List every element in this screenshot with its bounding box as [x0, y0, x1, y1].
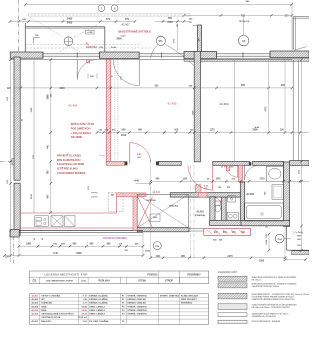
svg-text:V ROZVODNEJ SKRINKE: V ROZVODNEJ SKRINKE: [57, 172, 86, 175]
partition wall 42.405/42.404 vertical: [194, 51, 200, 161]
svg-text:D.02: D.02: [137, 154, 142, 156]
svg-text:2400: 2400: [252, 129, 258, 132]
bottom mid dim chain: [151, 257, 285, 259]
left outer vertical dim line: [10, 60, 12, 262]
window right (42.404): [217, 53, 271, 55]
svg-text:2400: 2400: [67, 17, 73, 20]
svg-text:1175: 1175: [174, 38, 176, 44]
wardrobe inner unit: [150, 214, 160, 222]
right bottom small dim: [285, 259, 306, 261]
small red stub below band (zasuvka): [87, 60, 90, 63]
header row texts: [39, 277, 41, 283]
exterior wall left: [14, 57, 20, 180]
svg-text:42.405: 42.405: [31, 309, 38, 312]
top overall dimension line: [26, 4, 292, 6]
wc/bath divider wall grey: [240, 182, 244, 224]
exterior wall segment top-mid-right: [184, 51, 217, 58]
neighbour wall edge lines right: [292, 60, 294, 161]
svg-text:42.401: 42.401: [152, 190, 160, 194]
svg-text:1B: 1B: [242, 39, 246, 43]
svg-text:STIERK. OMIETKA: STIERK. OMIETKA: [127, 305, 147, 308]
svg-text:42.407: 42.407: [122, 22, 130, 26]
bathtub: [244, 203, 283, 221]
wc washer: [227, 212, 238, 220]
svg-text:775: 775: [106, 18, 111, 21]
window top-left (balcony door + window): [43, 53, 100, 55]
left dim line y87.9: [14, 87, 200, 89]
mid horizontal wall seg B: [213, 161, 250, 165]
svg-text:DREV. LAMELY: DREV. LAMELY: [89, 313, 105, 316]
exterior wall segment top-left: [10, 52, 43, 58]
interior vertical guide x34: [33, 60, 35, 213]
legend table header box: [30, 271, 209, 284]
svg-text:2+40: 2+40: [111, 46, 117, 49]
kitchen fridge: [65, 216, 76, 227]
leader from P04 right: [284, 238, 291, 240]
living dim chain y132.5: [97, 132, 309, 134]
svg-text:STL: STL: [159, 40, 164, 43]
svg-text:ZALIATE BETÓNOM HR. 300mm: ZALIATE BETÓNOM HR. 300mm: [252, 285, 280, 288]
wc left wall: [221, 196, 226, 225]
svg-text:42.405: 42.405: [167, 102, 177, 106]
door D02 jambs: [125, 161, 128, 165]
svg-text:KERAM. DLAŽBA: KERAM. DLAŽBA: [89, 298, 108, 301]
door D01 corridor/42.404 red: [212, 165, 214, 190]
grid bubble 8: [111, 5, 118, 12]
kitchen red band horizontal: [117, 193, 146, 197]
bathroom bottom wall: [241, 220, 290, 225]
red hatch overlay on wc north wall: [198, 193, 207, 197]
section axis dash-dot top-left: [18, 0, 20, 52]
dashed soffit line 1: [26, 44, 140, 46]
wc/bath divider wall red top: [239, 165, 243, 182]
svg-text:STIERK. OMIETKA: STIERK. OMIETKA: [127, 295, 147, 298]
red cross brace over niche: [138, 197, 153, 228]
circle P04 bottom-left-mid: [153, 242, 161, 250]
svg-text:7: 7: [101, 7, 103, 11]
wc door red: [237, 165, 239, 177]
svg-text:42.404: 42.404: [219, 102, 229, 106]
red wall bottom band: [106, 161, 124, 165]
svg-text:42.406: 42.406: [31, 313, 38, 316]
dashed leaders from band to light: [30, 17, 63, 37]
dashed leaders to light: [60, 46, 69, 52]
dashed future furniture box: [108, 193, 123, 212]
opening between wardrobe wall and wc band: [189, 227, 204, 229]
svg-text:RIEŠ. PROJEKT: RIEŠ. PROJEKT: [181, 298, 198, 301]
svg-text:2175: 2175: [227, 255, 233, 258]
bottom dim chain living: [19, 245, 143, 247]
svg-text:STIERK. OMIETKA: STIERK. OMIETKA: [160, 295, 180, 298]
svg-text:14.86: 14.86: [81, 309, 87, 312]
svg-text:PRÁČKA: PRÁČKA: [169, 204, 178, 207]
svg-text:IZBA: IZBA: [41, 309, 47, 312]
dash-dot section line mid-left: [0, 160, 14, 162]
svg-text:2400: 2400: [67, 22, 73, 25]
red partition start vertical: [133, 197, 137, 231]
svg-text:2020: 2020: [145, 251, 151, 253]
mid horizontal wall seg A: [159, 161, 182, 165]
svg-text:LEGENDA MAT.:: LEGENDA MAT.:: [218, 270, 238, 274]
svg-text:LEGENDA MIESTNOSTÍ: 4.NP: LEGENDA MIESTNOSTÍ: 4.NP: [45, 273, 88, 277]
svg-text:DREV. LAMELY: DREV. LAMELY: [89, 309, 105, 312]
svg-text:WC: WC: [41, 299, 45, 301]
dashed soffit line 2: [26, 47, 152, 49]
wc sink: [228, 196, 236, 202]
svg-text:STIERK. OMIETKA: STIERK. OMIETKA: [127, 309, 147, 312]
mid horizontal wall seg C: [253, 161, 284, 165]
grid bubble 7: [98, 5, 105, 12]
svg-text:42.403: 42.403: [246, 193, 254, 196]
svg-text:+3,85: +3,85: [87, 32, 93, 34]
svg-text:42.401: 42.401: [31, 295, 38, 298]
circle P04 right: [275, 234, 284, 243]
svg-text:IZBA: IZBA: [41, 305, 47, 308]
wc door arc red: [214, 197, 222, 205]
window jamb ticks: [42, 52, 44, 57]
svg-text:PRIVIESŤ EL.KÁBEL: PRIVIESŤ EL.KÁBEL: [57, 155, 82, 158]
svg-text:ISTIŤ PRE KLIMU: ISTIŤ PRE KLIMU: [57, 168, 78, 171]
inner face line of top wall: [10, 59, 292, 61]
legend swatch 4: [218, 304, 247, 310]
bottom red band with window dims: [204, 229, 251, 236]
svg-text:+ 100+výš 800mm: + 100+výš 800mm: [71, 132, 91, 135]
right vertical extension lines: [268, 60, 270, 133]
svg-text:1970(4.10): 1970(4.10): [239, 20, 250, 23]
svg-text:PRE KLIMATIZÁCIU: PRE KLIMATIZÁCIU: [57, 159, 81, 162]
dotted balcony-above band: [29, 14, 191, 16]
svg-text:OD ZEME: OD ZEME: [71, 136, 83, 139]
added insulation band top-right: [184, 59, 309, 62]
door D02 living/corridor red: [129, 143, 131, 164]
svg-text:955: 955: [241, 84, 246, 87]
svg-text:KERAM. DLAŽBA: KERAM. DLAŽBA: [89, 295, 108, 298]
faint outer sill line: [19, 234, 143, 236]
corridor dim chain y181.3: [151, 180, 309, 182]
svg-text:PODLAHA: PODLAHA: [99, 280, 111, 283]
extension lines bottom: [150, 165, 152, 257]
svg-text:+440: +440: [134, 180, 140, 183]
svg-text:KERAM. OBKLAD: KERAM. OBKLAD: [127, 298, 146, 301]
svg-text:KLÍMA OBKLADY: KLÍMA OBKLADY: [181, 295, 199, 298]
wall notch left: [12, 159, 14, 165]
grid bubble B right: [239, 35, 249, 45]
svg-text:STENA: STENA: [138, 280, 146, 283]
svg-text:ZAČIATOK PERÁNKA →: ZAČIATOK PERÁNKA →: [103, 237, 130, 240]
svg-text:STROP: STROP: [165, 281, 173, 283]
sw corner block: [10, 230, 19, 237]
exterior wall segment top-right: [270, 51, 309, 58]
balcony bracket 150: [34, 37, 40, 39]
svg-text:(m2): (m2): [81, 281, 86, 283]
svg-text:2190: 2190: [121, 135, 127, 137]
svg-text:KERAM. OBKLAD: KERAM. OBKLAD: [127, 302, 146, 305]
dash-dot verticals in corridor: [190, 165, 192, 257]
svg-text:EX. KER. DLAŽBA: EX. KER. DLAŽBA: [89, 320, 108, 323]
svg-text:8: 8: [114, 7, 116, 11]
red leader dashes: [100, 155, 107, 157]
balcony railing top: [25, 26, 105, 28]
svg-text:8.42: 8.42: [53, 252, 58, 255]
svg-text:71.85 m2: 71.85 m2: [78, 317, 88, 319]
svg-text:550: 550: [168, 17, 173, 20]
svg-text:STIERK. OMIETKA: STIERK. OMIETKA: [127, 313, 147, 316]
ceiling light symbol on balcony: [64, 37, 73, 46]
legend swatch 1: [218, 276, 247, 281]
svg-text:POD OMIETKOU: POD OMIETKOU: [71, 128, 91, 131]
interior vertical dim line x50.8: [50, 60, 52, 213]
exterior wall segment top-mid-left: [100, 52, 140, 59]
se exterior corner step: [286, 226, 288, 250]
svg-text:SUŠIČKA: SUŠIČKA: [146, 199, 156, 202]
balcony door swing room 42.405: [138, 60, 140, 86]
svg-text:OZN. MIESTNOSTI, POPIS: OZN. MIESTNOSTI, POPIS: [46, 281, 74, 283]
legend swatch 2: [218, 283, 247, 288]
wardrobe niche box: [137, 194, 188, 228]
bottom wall under wardrobe: [137, 228, 189, 232]
svg-text:BALKÓN: BALKÓN: [41, 320, 51, 323]
svg-text:OMIETNUTÉ VÁPENNOCEMENTOVOU OM: OMIETNUTÉ VÁPENNOCEMENTOVOU OMIETKOU: [252, 298, 296, 301]
bottom total dims: [5, 255, 143, 257]
svg-text:KERAM. DLAŽBA: KERAM. DLAŽBA: [89, 302, 108, 305]
svg-text:530: 530: [284, 15, 289, 18]
balcony railing left: [24, 23, 26, 52]
legend swatch 3: [218, 293, 247, 299]
balcony level box +3,85: [86, 30, 95, 34]
mid guide line room 42.404: [233, 60, 235, 162]
svg-text:0,9m/2200mm OD ZEME: 0,9m/2200mm OD ZEME: [57, 163, 85, 166]
svg-text:1475: 1475: [215, 177, 221, 180]
svg-text:DREV. LAMELY: DREV. LAMELY: [89, 305, 105, 308]
wc toilet: [215, 201, 221, 205]
kitchen stove: [51, 216, 63, 227]
svg-text:INŠTALAČNÝ ŽĽAB: INŠTALAČNÝ ŽĽAB: [71, 123, 94, 126]
kitchen sink unit: [35, 216, 49, 227]
svg-text:5290: 5290: [76, 252, 82, 255]
svg-text:HR. 200mm A 300mm - POHĽADOVÝ: HR. 200mm A 300mm - POHĽADOVÝ BETÓN: [252, 306, 291, 309]
svg-text:NOVÉ KONŠTRUKCIE - BÚRANIE: NOVÉ KONŠTRUKCIE - BÚRANIE: [252, 320, 281, 323]
kitchen counter red outline: [20, 212, 117, 214]
balcony railing right: [104, 27, 106, 52]
svg-text:1985: 1985: [26, 243, 32, 245]
right outer vertical dim line: [301, 60, 303, 251]
svg-text:1640: 1640: [59, 87, 65, 90]
svg-text:1715: 1715: [259, 178, 265, 180]
leader curve from STL: [151, 45, 159, 59]
svg-text:POZNÁMKY: POZNÁMKY: [188, 274, 202, 277]
wc north wall: [170, 193, 240, 197]
svg-text:775: 775: [125, 18, 130, 21]
svg-text:KÚPEĽŇA: KÚPEĽŇA: [41, 302, 52, 305]
svg-text:42.403: 42.403: [31, 302, 38, 305]
neighbour balcony outline top-right: [292, 17, 294, 50]
washbasin counter: [266, 166, 283, 181]
svg-text:(PRÁČKA): (PRÁČKA): [195, 214, 206, 217]
thermostat circle STL: [156, 36, 165, 45]
corridor south wall: red segment: [106, 60, 111, 163]
bathroom door grey: [244, 165, 246, 180]
svg-text:700: 700: [241, 15, 246, 18]
living room south window wall line 1: [19, 229, 143, 231]
bracket ticks left of dashed box: [91, 192, 98, 194]
svg-text:HR. 300mm: HR. 300mm: [252, 280, 262, 282]
svg-text:42.406: 42.406: [68, 104, 78, 108]
vertical dim right of bathtub: [268, 234, 270, 250]
svg-text:INTERIÉRU: INTERIÉRU: [181, 302, 193, 305]
red stub at wc door: [196, 185, 202, 193]
svg-text:ČÍS.: ČÍS.: [32, 280, 37, 283]
svg-text:250: 250: [281, 84, 286, 87]
svg-text:OBÝVACIA IZBA S KUCHYŇOU: OBÝVACIA IZBA S KUCHYŇOU: [41, 313, 74, 316]
svg-text:4770: 4770: [264, 106, 267, 112]
shower unit: [272, 185, 284, 199]
balcony divider wall (to neighbour): [197, 25, 201, 51]
legend data box: [30, 294, 209, 324]
wardrobe X diagonals: [137, 194, 188, 228]
svg-text:42.402: 42.402: [196, 210, 204, 213]
mid wall right extension to sheet edge: [290, 161, 309, 166]
svg-text:42.402: 42.402: [31, 298, 38, 301]
svg-text:1985: 1985: [48, 94, 50, 100]
top dimension chain line: [10, 20, 135, 22]
window mid (42.405): [139, 53, 184, 55]
svg-text:14.86: 14.86: [81, 305, 87, 308]
demolished wall dotted lines: [114, 60, 116, 162]
svg-text:OBYTNÁ PLOCHA: OBYTNÁ PLOCHA: [41, 316, 61, 319]
dash-dot axis bottom-left: [13, 236, 15, 263]
red jamb corridor/wc: [227, 165, 230, 171]
svg-text:1140: 1140: [30, 107, 33, 113]
svg-text:42.407: 42.407: [31, 320, 38, 323]
svg-text:EL.: EL.: [86, 44, 90, 46]
svg-text:28.22: 28.22: [81, 314, 87, 316]
svg-text:1+Tx(2): 1+Tx(2): [295, 232, 303, 234]
legend swatch 5: [218, 313, 247, 317]
legend swatch 6: [218, 320, 247, 323]
svg-text:VSTUP / CHODBA: VSTUP / CHODBA: [41, 295, 60, 298]
svg-text:S MINERÁLNOU IZOLÁCIOU: S MINERÁLNOU IZOLÁCIOU: [252, 315, 277, 318]
bathroom right wall: [284, 162, 290, 226]
wardrobe/wc divider stub: [210, 197, 215, 220]
svg-text:3165: 3165: [31, 193, 33, 199]
svg-text:2400: 2400: [116, 37, 122, 40]
diagonal at top-right corner: [294, 47, 307, 51]
svg-text:ZÁSUVKA: ZÁSUVKA: [86, 46, 97, 49]
balcony door swing into living room: [76, 60, 78, 80]
svg-text:42.404: 42.404: [31, 305, 38, 308]
svg-text:1175: 1175: [210, 130, 216, 132]
living room south window wall line 2: [19, 232, 143, 234]
svg-text:2400: 2400: [167, 21, 173, 24]
right dim chain y87.5: [200, 87, 292, 89]
bottom wall wc grey band: [210, 220, 253, 225]
svg-text:POVRCH: POVRCH: [147, 275, 157, 277]
svg-text:1560: 1560: [259, 261, 265, 263]
